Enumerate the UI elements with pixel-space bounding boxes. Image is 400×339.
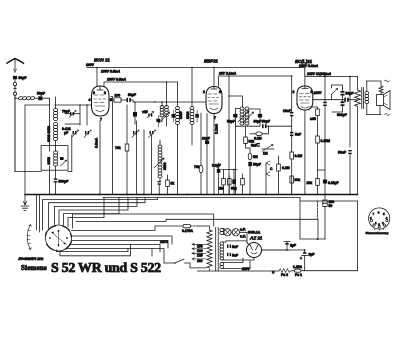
svg-text:4: 4: [89, 98, 91, 102]
svg-text:0580: 0580: [163, 162, 167, 170]
svg-text:ECH 11: ECH 11: [94, 58, 110, 63]
secondary line below bus: [103, 197, 300, 199]
svg-text:C: C: [270, 167, 273, 171]
transformer taps: [190, 243, 206, 268]
capacitor screen bypass 0.1uF: [212, 163, 221, 195]
capacitor above bus 50pF: [222, 169, 237, 195]
svg-text:u.P.: u.P.: [240, 235, 246, 239]
resistor 0.2M: [277, 156, 290, 195]
wire mains run long: [73, 214, 214, 228]
wire HT out: [262, 249, 305, 251]
antenna coil L2 upper with label 0080: [47, 97, 58, 146]
dashed mains divider: [317, 201, 319, 219]
tone switch arrow: [332, 85, 343, 100]
tone capacitor stack bottom: [332, 102, 347, 118]
mains switch: [164, 259, 190, 264]
resistor grid leak 0.15M: [316, 116, 330, 195]
trimmer capacitors oscillator left: [62, 127, 91, 138]
bottom return line: [198, 270, 358, 272]
ground: [21, 195, 29, 211]
svg-text:Siemensfassung: Siemensfassung: [366, 231, 389, 235]
svg-text:28V 2.1mA: 28V 2.1mA: [218, 72, 237, 76]
wire EBF11 anode to rail: [213, 68, 215, 87]
svg-text:215V 32(33)mA: 215V 32(33)mA: [306, 72, 332, 76]
resistor 20k right: [307, 179, 320, 186]
capacitor osc blob left: [172, 110, 176, 122]
svg-text:50pF: 50pF: [227, 120, 235, 124]
svg-text:150: 150: [197, 245, 203, 249]
svg-text:Fu 3: Fu 3: [281, 273, 288, 277]
svg-text:220V: 220V: [160, 240, 169, 244]
capacitor 5nF ht 1: [227, 245, 238, 250]
svg-text:110: 110: [197, 259, 203, 263]
capacitor 50pF det series: [262, 120, 270, 129]
IF transformer II right coil: [243, 107, 254, 126]
svg-text:5nF: 5nF: [232, 245, 238, 249]
svg-text:8µF: 8µF: [290, 244, 296, 248]
resistor 0.3M oval: [250, 126, 269, 140]
svg-text:50pF: 50pF: [19, 76, 27, 80]
svg-text:1.25A: 1.25A: [293, 265, 303, 269]
transformer secondary heater bottom: [220, 258, 250, 269]
capacitor 8uF second: [300, 249, 314, 271]
svg-text:6: 6: [93, 91, 95, 95]
node antenna input: [14, 97, 16, 99]
wire ECL11 cathode: [304, 110, 306, 195]
svg-text:0.2M: 0.2M: [282, 166, 290, 170]
output transformer primary: [355, 77, 361, 195]
wire anode line to transformer: [313, 99, 345, 101]
svg-text:0.175A: 0.175A: [182, 229, 193, 233]
svg-text:50pF: 50pF: [262, 120, 270, 124]
svg-text:a.P.: a.P.: [240, 228, 246, 232]
wire right boundary vertical: [357, 201, 359, 271]
transformer core: [216, 228, 219, 272]
switch bottom return lines: [57, 245, 131, 256]
wire filter top junction: [317, 238, 319, 240]
wire columns mid: [65, 97, 152, 195]
capacitor agc blob: [248, 162, 261, 195]
svg-text:v25: v25: [142, 110, 148, 114]
line right low: [300, 198, 358, 202]
IF transformer I primary coil: [160, 102, 164, 122]
svg-text:8: 8: [219, 90, 221, 94]
svg-text:5nF: 5nF: [251, 144, 257, 148]
capacitor 50pF antenna series: [13, 76, 27, 83]
wire ECH11 cathode down: [99, 121, 101, 195]
rail 28V: [219, 76, 292, 108]
svg-text:50pF: 50pF: [254, 120, 262, 124]
rotary wave switch: [46, 225, 72, 251]
svg-text:280V: 280V: [241, 267, 251, 271]
line to filter: [300, 201, 325, 239]
capacitor 8uF first: [284, 242, 296, 251]
capacitor 5nF across primary: [344, 98, 357, 102]
shield box antenna coil lower: [41, 146, 68, 171]
svg-text:20k: 20k: [307, 181, 313, 185]
svg-text:S 52 WR und S 522: S 52 WR und S 522: [51, 261, 161, 276]
trimmer capacitor 70pF: [62, 110, 80, 118]
switch wiper arc: [27, 225, 32, 250]
svg-text:8µF: 8µF: [309, 253, 315, 257]
trimmer capacitor in box: [60, 157, 67, 166]
antenna: [7, 59, 24, 73]
svg-text:50k: 50k: [295, 178, 301, 182]
svg-text:7: 7: [373, 212, 375, 216]
capacitor osc padder: [158, 181, 161, 195]
oscillator coil column 3050: [176, 82, 184, 195]
wire box verticals down: [50, 170, 56, 194]
capacitor grid coupling: [283, 108, 293, 120]
tube socket bottom view: [369, 208, 390, 231]
svg-text:10µF: 10µF: [202, 137, 210, 141]
svg-text:5M: 5M: [253, 155, 258, 159]
svg-text:2: 2: [203, 90, 205, 94]
capacitor feedback on x325: [323, 77, 326, 171]
resistor cathode bias: [310, 107, 319, 121]
dial lamp 1: [224, 229, 231, 236]
capacitor 50pF input: [37, 92, 50, 109]
svg-text:180V 6.8mA: 180V 6.8mA: [299, 64, 319, 68]
svg-text:130: 130: [197, 249, 203, 253]
svg-text:JV=468/473 kHz: JV=468/473 kHz: [18, 257, 44, 261]
wire detector line: [235, 125, 291, 127]
svg-text:50pF: 50pF: [346, 92, 354, 96]
svg-text:5nF: 5nF: [295, 133, 301, 137]
svg-text:3050: 3050: [179, 111, 183, 119]
wire ECH11 grid left: [55, 104, 92, 106]
wire screen x229: [228, 76, 230, 195]
svg-text:50pF: 50pF: [37, 92, 45, 96]
IF transformer I secondary coil: [159, 82, 170, 126]
dial lamp 2: [231, 228, 261, 244]
tube EBF11: [203, 59, 222, 121]
speaker: [377, 91, 391, 110]
svg-text:100V 0.5mA: 100V 0.5mA: [101, 70, 121, 74]
svg-text:0080 0950: 0080 0950: [47, 126, 51, 142]
svg-text:0.3M: 0.3M: [254, 137, 262, 141]
resistor 70k: [115, 105, 129, 195]
wire ECL11 anode to rail: [304, 77, 306, 87]
wire staircase bundle left: [37, 195, 158, 233]
svg-text:50: 50: [329, 204, 333, 208]
svg-text:+: +: [300, 257, 302, 261]
svg-text:1M: 1M: [263, 152, 268, 156]
capacitor second right column: [290, 132, 301, 137]
rail 215V top: [87, 68, 358, 77]
wire avc down: [234, 126, 236, 194]
svg-text:500pF: 500pF: [337, 113, 347, 117]
oscillator coil lower 0580: [154, 140, 167, 181]
mains fuse: [155, 224, 198, 233]
svg-text:6V/0.1A: 6V/0.1A: [248, 231, 261, 235]
capacitor 50pF coupling: [127, 93, 155, 102]
svg-text:8: 8: [311, 90, 313, 94]
capacitor 0.25uF right: [318, 170, 339, 195]
wire left column x15/x25: [15, 95, 72, 194]
svg-text:230V: 230V: [313, 91, 323, 95]
speaker wiring bottom: [367, 106, 390, 116]
oscillator coil column 0530: [186, 68, 194, 146]
switch output lines: [66, 226, 172, 263]
wire line y221: [76, 219, 318, 239]
capacitor IF II right trimmer: [249, 109, 262, 126]
svg-text:Siemens: Siemens: [21, 264, 47, 272]
svg-text:5: 5: [383, 212, 385, 216]
output transformer secondary: [365, 81, 369, 115]
trimmer capacitor osc mid: [132, 130, 139, 138]
svg-text:50pF: 50pF: [128, 93, 136, 97]
svg-text:70k: 70k: [115, 146, 121, 150]
resistor above bus right: [241, 174, 245, 195]
wire grid line to EBF: [155, 101, 206, 103]
potentiometer 1M volume: [262, 145, 274, 156]
resistor 150/50 ohm: [323, 195, 334, 240]
svg-text:1: 1: [375, 221, 377, 225]
svg-text:2: 2: [293, 90, 295, 94]
fuse Fu1: [293, 265, 303, 277]
resistor 5k osc: [166, 175, 175, 195]
svg-text:500pF: 500pF: [59, 180, 69, 184]
resistor above bus 2M: [219, 170, 225, 195]
capacitor 5nF: [251, 143, 260, 148]
svg-text:0530: 0530: [186, 111, 190, 119]
resistor 50k det: [244, 126, 255, 148]
svg-text:125: 125: [197, 254, 203, 258]
svg-text:5k: 5k: [171, 182, 175, 186]
svg-text:2M: 2M: [219, 187, 224, 191]
wire EBF11 pin left down: [200, 113, 202, 195]
svg-text:70pF: 70pF: [62, 110, 70, 114]
resistor 5M agc oval: [248, 148, 258, 160]
speaker wiring top with voice resistor: [367, 80, 390, 95]
NTC resistor Urdox: [272, 269, 290, 277]
svg-text:5nF: 5nF: [232, 254, 238, 258]
transformer secondary HT: [220, 241, 226, 260]
svg-text:Fu 1: Fu 1: [295, 273, 302, 277]
rectifier tube AZ11: [226, 236, 289, 261]
main bus (chassis): [25, 194, 358, 196]
trimmer capacitor v25: [142, 110, 154, 118]
switch tone contacts: [266, 161, 273, 195]
coil L1 1800: [15, 96, 38, 100]
capacitor osc blob right: [195, 110, 199, 122]
plug connector jack 2: [13, 88, 16, 171]
svg-text:pF: pF: [64, 131, 68, 135]
svg-text:AZ 11: AZ 11: [249, 236, 263, 241]
capacitor IF I trimmer: [156, 116, 160, 127]
svg-text:EBF11: EBF11: [204, 59, 218, 64]
capacitor 5nF ht 2: [227, 253, 238, 258]
wire EBF11 cathode down: [213, 114, 215, 195]
capacitor IF II left trimmer: [227, 109, 240, 127]
IF transformer II left coil: [228, 95, 248, 125]
trimmer capacitor osc mid2: [149, 130, 156, 138]
resistor above bus 1M: [228, 176, 232, 195]
wire ECH11 anode to rail: [96, 68, 98, 87]
plug connector jack 1: [13, 83, 16, 89]
resistor 100 anode stopper: [109, 94, 127, 103]
svg-text:0.1µF: 0.1µF: [212, 164, 221, 168]
svg-text:50nF: 50nF: [338, 151, 346, 155]
output transformer core: [362, 88, 364, 109]
svg-text:3: 3: [378, 211, 380, 215]
tone capacitor stack top: [341, 89, 354, 102]
tube ECL11: [293, 59, 319, 110]
svg-text:100: 100: [115, 94, 121, 98]
svg-text:70k: 70k: [194, 165, 200, 169]
svg-text:0.1M: 0.1M: [295, 154, 303, 158]
wire earth branch: [25, 104, 50, 106]
capacitor 500pF: [54, 179, 69, 195]
wire ECH11 screen to rail: [103, 82, 105, 87]
capacitor padder on x135: [133, 101, 137, 124]
svg-text:u05: u05: [310, 117, 316, 121]
resistor right column 0.1M: [290, 120, 302, 195]
rail 100V screen: [104, 81, 178, 83]
resistor right column 50k: [290, 104, 300, 195]
svg-text:100V: 100V: [86, 63, 95, 67]
svg-text:10nF: 10nF: [283, 109, 291, 113]
rail junction dots: [96, 67, 351, 83]
svg-text:0.5mA: 0.5mA: [95, 137, 99, 148]
svg-text:3: 3: [104, 91, 106, 95]
svg-text:100V 0.5mA: 100V 0.5mA: [107, 78, 127, 82]
svg-text:0350: 0350: [47, 157, 51, 165]
trimmer capacitor 2: [72, 130, 79, 138]
svg-text:2.1mA: 2.1mA: [215, 123, 219, 134]
svg-text:50pF: 50pF: [253, 163, 261, 167]
power transformer primary: [198, 226, 212, 271]
junction dots input row: [79, 104, 88, 106]
resistor oval on left column: [194, 165, 203, 173]
capacitor 10uF cathode: [202, 114, 210, 195]
capacitor 50nF right: [338, 77, 352, 195]
bus junction dots: [99, 194, 351, 196]
tube ECH11: [89, 58, 113, 122]
transformer secondary heater top: [220, 229, 224, 235]
svg-text:0.25µF: 0.25µF: [328, 181, 339, 185]
